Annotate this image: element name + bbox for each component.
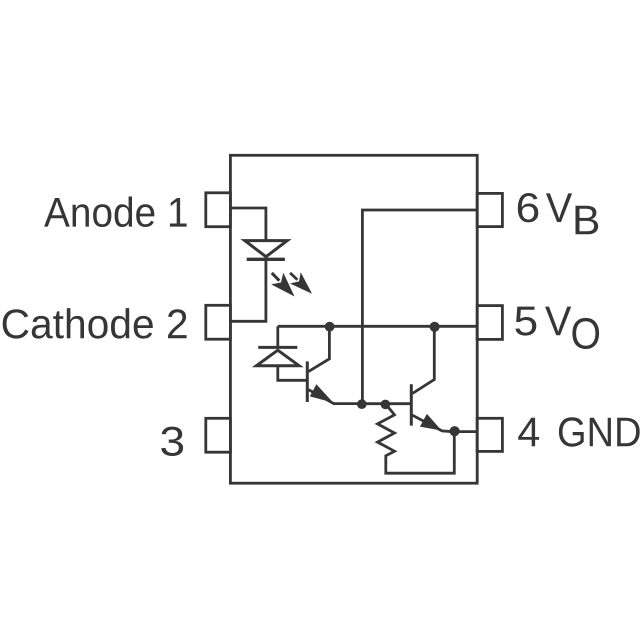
label Anode 1 (44, 197, 187, 228)
pin 6 box (477, 193, 502, 226)
LED D1 triangle (245, 241, 287, 257)
label 3 (161, 427, 183, 456)
wire VB from pin 6 (362, 210, 477, 404)
pin 1 box (206, 193, 231, 227)
junction dot resistor top (381, 400, 391, 410)
wire photodiode cathode up (276, 326, 279, 347)
transistor Q1 base bar (306, 361, 309, 402)
wire GND to pin 4 (455, 430, 478, 433)
wire pin1 anode to LED (230, 208, 266, 241)
junction dot Q2 collector / VO (430, 322, 440, 332)
transistor Q2 emitter arrow (420, 414, 442, 431)
LED D1 cathode bar (247, 258, 285, 261)
transistor Q2 emitter (412, 415, 454, 432)
resistor R1 (378, 404, 455, 473)
wire VO node (pin 5) (278, 325, 477, 328)
transistor Q1 collector (308, 326, 329, 371)
pin 4 box (477, 418, 502, 451)
transistor Q1 emitter arrow (310, 384, 333, 402)
pin 2 box (206, 305, 231, 339)
wire base node to Q2 base (361, 402, 410, 405)
light arrow 1 (266, 267, 301, 302)
pin 3 box (206, 418, 231, 452)
photodiode PD triangle (257, 350, 300, 366)
photodiode PD cathode bar (258, 346, 297, 349)
transistor Q1 emitter (308, 390, 361, 404)
junction dot Q1 collector / VO (325, 322, 335, 332)
IC body U1 (230, 155, 477, 483)
transistor Q2 base bar (410, 384, 413, 425)
pin 5 box (477, 306, 502, 340)
label Cathode 2 (3, 308, 187, 339)
wire photodiode anode to Q1 base (278, 366, 306, 380)
junction dot VB / base node (357, 399, 367, 409)
wire LED to pin2 cathode (230, 259, 266, 321)
transistor Q2 collector (412, 326, 434, 393)
junction dot emitter / GND (450, 426, 460, 436)
light arrow 2 (285, 267, 318, 299)
label 6 VB (518, 193, 539, 222)
label 5 VO (515, 307, 536, 336)
label 4 GND (518, 418, 539, 447)
